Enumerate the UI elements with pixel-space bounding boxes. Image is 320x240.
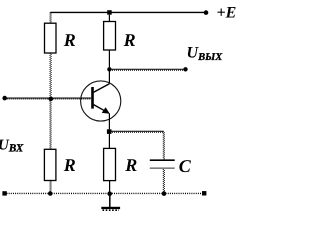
wire bottom ground rail <box>7 192 203 194</box>
node ground rail junction dot cap <box>162 191 167 196</box>
wire divider lower lead <box>50 101 51 149</box>
svg-text:R: R <box>63 30 76 50</box>
wire R2 top lead <box>108 15 110 22</box>
transistor VT1 base bar <box>91 87 94 109</box>
svg-text:R: R <box>123 30 136 50</box>
svg-text:R: R <box>124 155 137 175</box>
capacitor C bottom plate <box>150 167 175 169</box>
wire top supply rail <box>50 11 204 13</box>
wire R4 bottom lead <box>109 181 111 194</box>
wire capacitor bottom lead <box>163 169 164 191</box>
node collector junction dot <box>107 67 111 71</box>
resistor R3 <box>44 149 56 180</box>
wire R3 bottom lead <box>50 181 51 194</box>
node ground rail junction dot left <box>48 191 53 196</box>
svg-text:R: R <box>63 155 76 175</box>
wire R1 top lead <box>50 12 51 23</box>
wire emitter vertical <box>108 113 110 129</box>
node output terminal dot <box>183 67 187 71</box>
resistor R4 <box>104 148 116 180</box>
wire capacitor top lead <box>163 131 164 159</box>
resistor R1 <box>45 23 57 53</box>
ground symbol <box>101 207 120 209</box>
node emitter junction dot <box>107 129 112 134</box>
node input terminal dot <box>2 96 7 101</box>
node bottom left terminal <box>2 191 6 195</box>
node junction square on top rail <box>107 10 112 15</box>
wire collector vertical <box>108 69 110 83</box>
wire input to base <box>7 98 91 99</box>
transistor VT1 emitter lead with arrow <box>94 105 105 111</box>
wire R2 bottom lead <box>108 50 110 67</box>
svg-text:+E: +E <box>217 5 237 22</box>
transistor VT1 circle <box>81 81 121 121</box>
transistor VT1 collector lead <box>94 84 110 93</box>
wire ground lead <box>109 194 111 207</box>
node bottom right terminal <box>202 191 206 195</box>
node ground rail junction dot mid <box>107 191 112 196</box>
wire emitter to R4 <box>108 134 110 149</box>
wire emitter tee to capacitor <box>112 131 164 132</box>
wire output <box>112 69 184 70</box>
node +E terminal dot <box>204 10 209 15</box>
wire R1 bottom lead <box>50 53 51 97</box>
node input junction dot <box>49 97 54 102</box>
svg-text:C: C <box>179 156 192 176</box>
resistor R2 <box>104 22 116 51</box>
capacitor C top plate <box>150 159 175 161</box>
